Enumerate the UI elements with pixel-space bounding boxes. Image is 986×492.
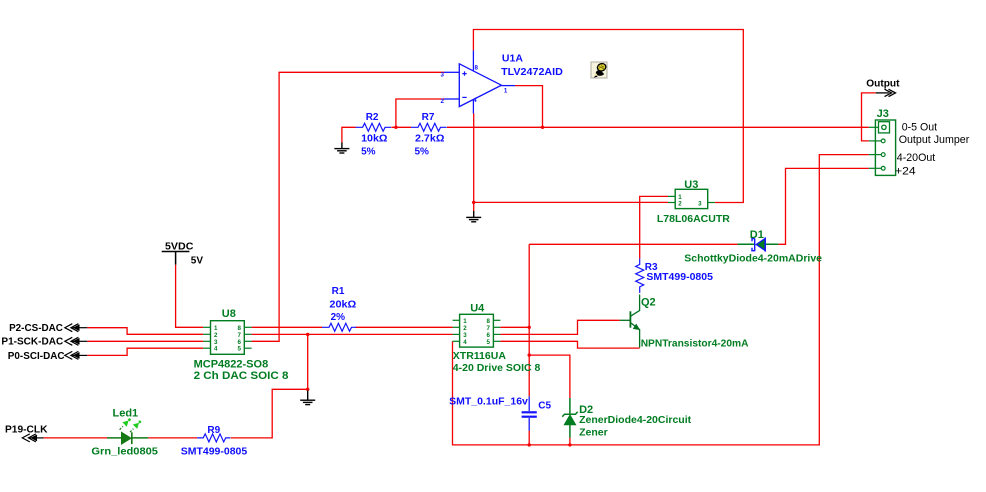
wire 5VDC to U8 pin1 (176, 265, 204, 328)
svg-text:D1: D1 (750, 229, 764, 241)
svg-text:1: 1 (214, 325, 218, 332)
svg-text:2: 2 (214, 332, 218, 339)
svg-text:2.7kΩ: 2.7kΩ (415, 133, 444, 144)
wire U4 pin7 stub to C5 net (500, 326, 529, 328)
wire branch to R9 right (231, 389, 308, 438)
wire opamp -in from junction on feedback row (396, 99, 444, 127)
svg-text:J3: J3 (877, 108, 889, 120)
power 5VDC symbol (162, 252, 190, 265)
svg-text:4: 4 (463, 339, 467, 346)
J3 pin stubs (869, 127, 881, 168)
svg-text:4: 4 (214, 346, 218, 353)
svg-text:4-20Out: 4-20Out (897, 152, 935, 164)
junction output drop on output row (541, 126, 544, 129)
svg-text:TLV2472AID: TLV2472AID (501, 66, 563, 78)
U4 pin stubs (453, 320, 501, 341)
svg-text:2: 2 (441, 98, 445, 105)
wire branch from C5 net to D2 top (529, 355, 570, 398)
diode D1 schottky (738, 237, 779, 251)
wire R2 left to ground (342, 127, 356, 142)
diode D2 zener (562, 398, 577, 438)
svg-text:U4: U4 (470, 303, 485, 315)
transistor Q2 (620, 295, 640, 348)
svg-text:U3: U3 (684, 179, 698, 191)
svg-text:XTR116UA: XTR116UA (453, 350, 507, 362)
wire D1 cathode to J3 pin4 (+24) (778, 168, 869, 244)
svg-text:Output Jumper: Output Jumper (899, 134, 970, 146)
resistor R3 vertical (636, 259, 644, 293)
svg-text:Output: Output (866, 79, 900, 90)
U3 pin stubs (668, 196, 715, 202)
wire U3 pin1 to R3 top (640, 196, 668, 258)
wire R1 row U8 pin8 to U4 pin2 (252, 326, 453, 328)
svg-text:7: 7 (487, 325, 491, 332)
junction opamp ground node (472, 201, 475, 204)
wire opamp +in net from U8 pin6 up and right to U1A pin3 (252, 72, 444, 341)
svg-text:SMT499-0805: SMT499-0805 (646, 271, 713, 283)
op-amp U1A pins (444, 51, 515, 114)
off-page connector P1-SCK-DAC (65, 337, 87, 345)
svg-text:R1: R1 (332, 286, 345, 297)
junction feedback row at R2-R7 (394, 126, 397, 129)
junction ground R9 branch (306, 388, 309, 391)
svg-text:U8: U8 (222, 308, 236, 320)
svg-text:2%: 2% (331, 312, 346, 323)
wire LED cathode to R9 left (148, 437, 197, 439)
svg-text:0-5 Out: 0-5 Out (902, 122, 937, 134)
wire U4 pin5 to Q2 emitter bottom (500, 341, 639, 348)
op-amp U1A triangle (459, 64, 501, 107)
svg-text:P1-SCK-DAC: P1-SCK-DAC (1, 337, 63, 348)
wire opamp pin4 down to ground and U3 pin2 row (474, 114, 668, 212)
resistor R9 (197, 434, 230, 442)
wire D1 anode row from C5 net vertical (529, 243, 737, 245)
pushpin icon (591, 62, 607, 78)
U8 pin stubs (203, 327, 251, 348)
off-page connector Output arrow (876, 89, 896, 96)
svg-text:Zener: Zener (579, 427, 608, 439)
svg-text:U1A: U1A (502, 53, 523, 65)
wire P19 arrow to LED anode (44, 437, 108, 439)
ground below pin7 branch (300, 391, 315, 405)
IC U4 box (460, 314, 494, 347)
svg-text:R2: R2 (366, 112, 379, 123)
svg-text:R9: R9 (207, 425, 220, 436)
IC U3 box (675, 189, 708, 208)
resistor R1 (322, 323, 356, 331)
svg-text:2: 2 (678, 201, 682, 208)
junction pin7 row ground branch (306, 333, 309, 336)
svg-text:5VDC: 5VDC (165, 242, 193, 253)
LED Led1 (107, 418, 148, 444)
ground opamp V- (466, 211, 481, 222)
off-page connector P0-SCI-DAC (65, 351, 87, 359)
svg-text:5%: 5% (415, 147, 430, 158)
junction branch D2 on C5 net (528, 353, 531, 356)
svg-text:ZenerDiode4-20Circuit: ZenerDiode4-20Circuit (579, 414, 692, 426)
svg-text:2: 2 (463, 325, 467, 332)
connector J3 box (875, 120, 895, 175)
svg-text:20kΩ: 20kΩ (329, 299, 356, 310)
svg-text:8: 8 (475, 65, 479, 72)
capacitor C5 (522, 396, 537, 430)
svg-text:NPNTransistor4-20mA: NPNTransistor4-20mA (641, 337, 749, 349)
svg-text:C5: C5 (538, 400, 551, 411)
J3 pin circles (881, 139, 885, 170)
svg-text:P2-CS-DAC: P2-CS-DAC (9, 323, 63, 334)
svg-text:SchottkyDiode4-20mADrive: SchottkyDiode4-20mADrive (684, 253, 822, 265)
ground near R2 (334, 143, 349, 154)
wire C5 bottom to rail (528, 431, 530, 445)
svg-text:P19-CLK: P19-CLK (5, 425, 48, 436)
IC U8 box (211, 321, 245, 355)
svg-text:SMT_0.1uF_16v: SMT_0.1uF_16v (449, 396, 528, 408)
svg-text:1: 1 (504, 87, 508, 94)
junction D2 on bottom rail (568, 443, 571, 446)
wire P1-SCK-DAC to U8 pin3 (87, 340, 203, 342)
J3 pin1 square (879, 122, 890, 133)
wire feedback row between R2 and R7 (391, 126, 411, 128)
wire opamp output drop to output row (515, 86, 542, 128)
svg-text:Grn_led0805: Grn_led0805 (91, 446, 158, 458)
svg-text:5: 5 (487, 339, 491, 346)
wire bottom rail from U4 pin4 to J3 pin3 riser (453, 155, 869, 445)
svg-text:3: 3 (698, 201, 702, 208)
wire P2-CS-DAC to U8 pin2 (87, 328, 203, 335)
wire output jumper J3 pin2 to Output arrow (862, 93, 876, 141)
op-amp +/- marks (462, 71, 466, 97)
wire P0-SCI-DAC to U8 pin4 (87, 348, 203, 355)
wire output row from R7 to J3 pin1 (447, 126, 869, 128)
svg-text:7: 7 (237, 332, 241, 339)
wire C5 net vertical from D1 row down to C5 (528, 244, 530, 396)
off-page connector P19-CLK (22, 434, 43, 442)
svg-text:Led1: Led1 (113, 407, 139, 419)
wire D2 bottom to rail (569, 438, 571, 445)
svg-text:MCP4822-SO8: MCP4822-SO8 (194, 358, 269, 370)
svg-text:5V: 5V (191, 256, 204, 267)
wire U4 pin6 to Q2 base (500, 320, 619, 334)
svg-text:3: 3 (441, 72, 445, 79)
svg-text:10kΩ: 10kΩ (361, 133, 387, 144)
svg-text:Q2: Q2 (641, 297, 656, 309)
svg-text:2 Ch DAC SOIC 8: 2 Ch DAC SOIC 8 (194, 370, 289, 382)
wire U8 pin7 row to U4 pin3 (252, 333, 453, 335)
wire ground branch from pin7 row down (307, 334, 309, 389)
svg-text:4: 4 (473, 97, 477, 104)
svg-text:4-20 Drive SOIC 8: 4-20 Drive SOIC 8 (453, 362, 541, 374)
svg-text:1: 1 (463, 318, 467, 325)
svg-text:+24: +24 (895, 165, 916, 177)
junction U4 pin7 on C5 net (528, 326, 531, 329)
junction C5 on bottom rail (528, 443, 531, 446)
svg-text:R7: R7 (422, 112, 435, 123)
svg-text:L78L06ACUTR: L78L06ACUTR (657, 213, 730, 225)
svg-text:8: 8 (237, 325, 241, 332)
wire opamp pin8 power loop to U3 pin3 (473, 30, 743, 203)
svg-text:SMT499-0805: SMT499-0805 (181, 446, 248, 458)
resistor R7 (411, 123, 447, 131)
svg-text:5%: 5% (361, 147, 376, 158)
svg-text:8: 8 (487, 318, 491, 325)
svg-text:5: 5 (237, 346, 241, 353)
svg-text:P0-SCI-DAC: P0-SCI-DAC (8, 351, 65, 362)
off-page connector P2-CS-DAC (65, 324, 87, 332)
resistor R2 (356, 123, 392, 131)
